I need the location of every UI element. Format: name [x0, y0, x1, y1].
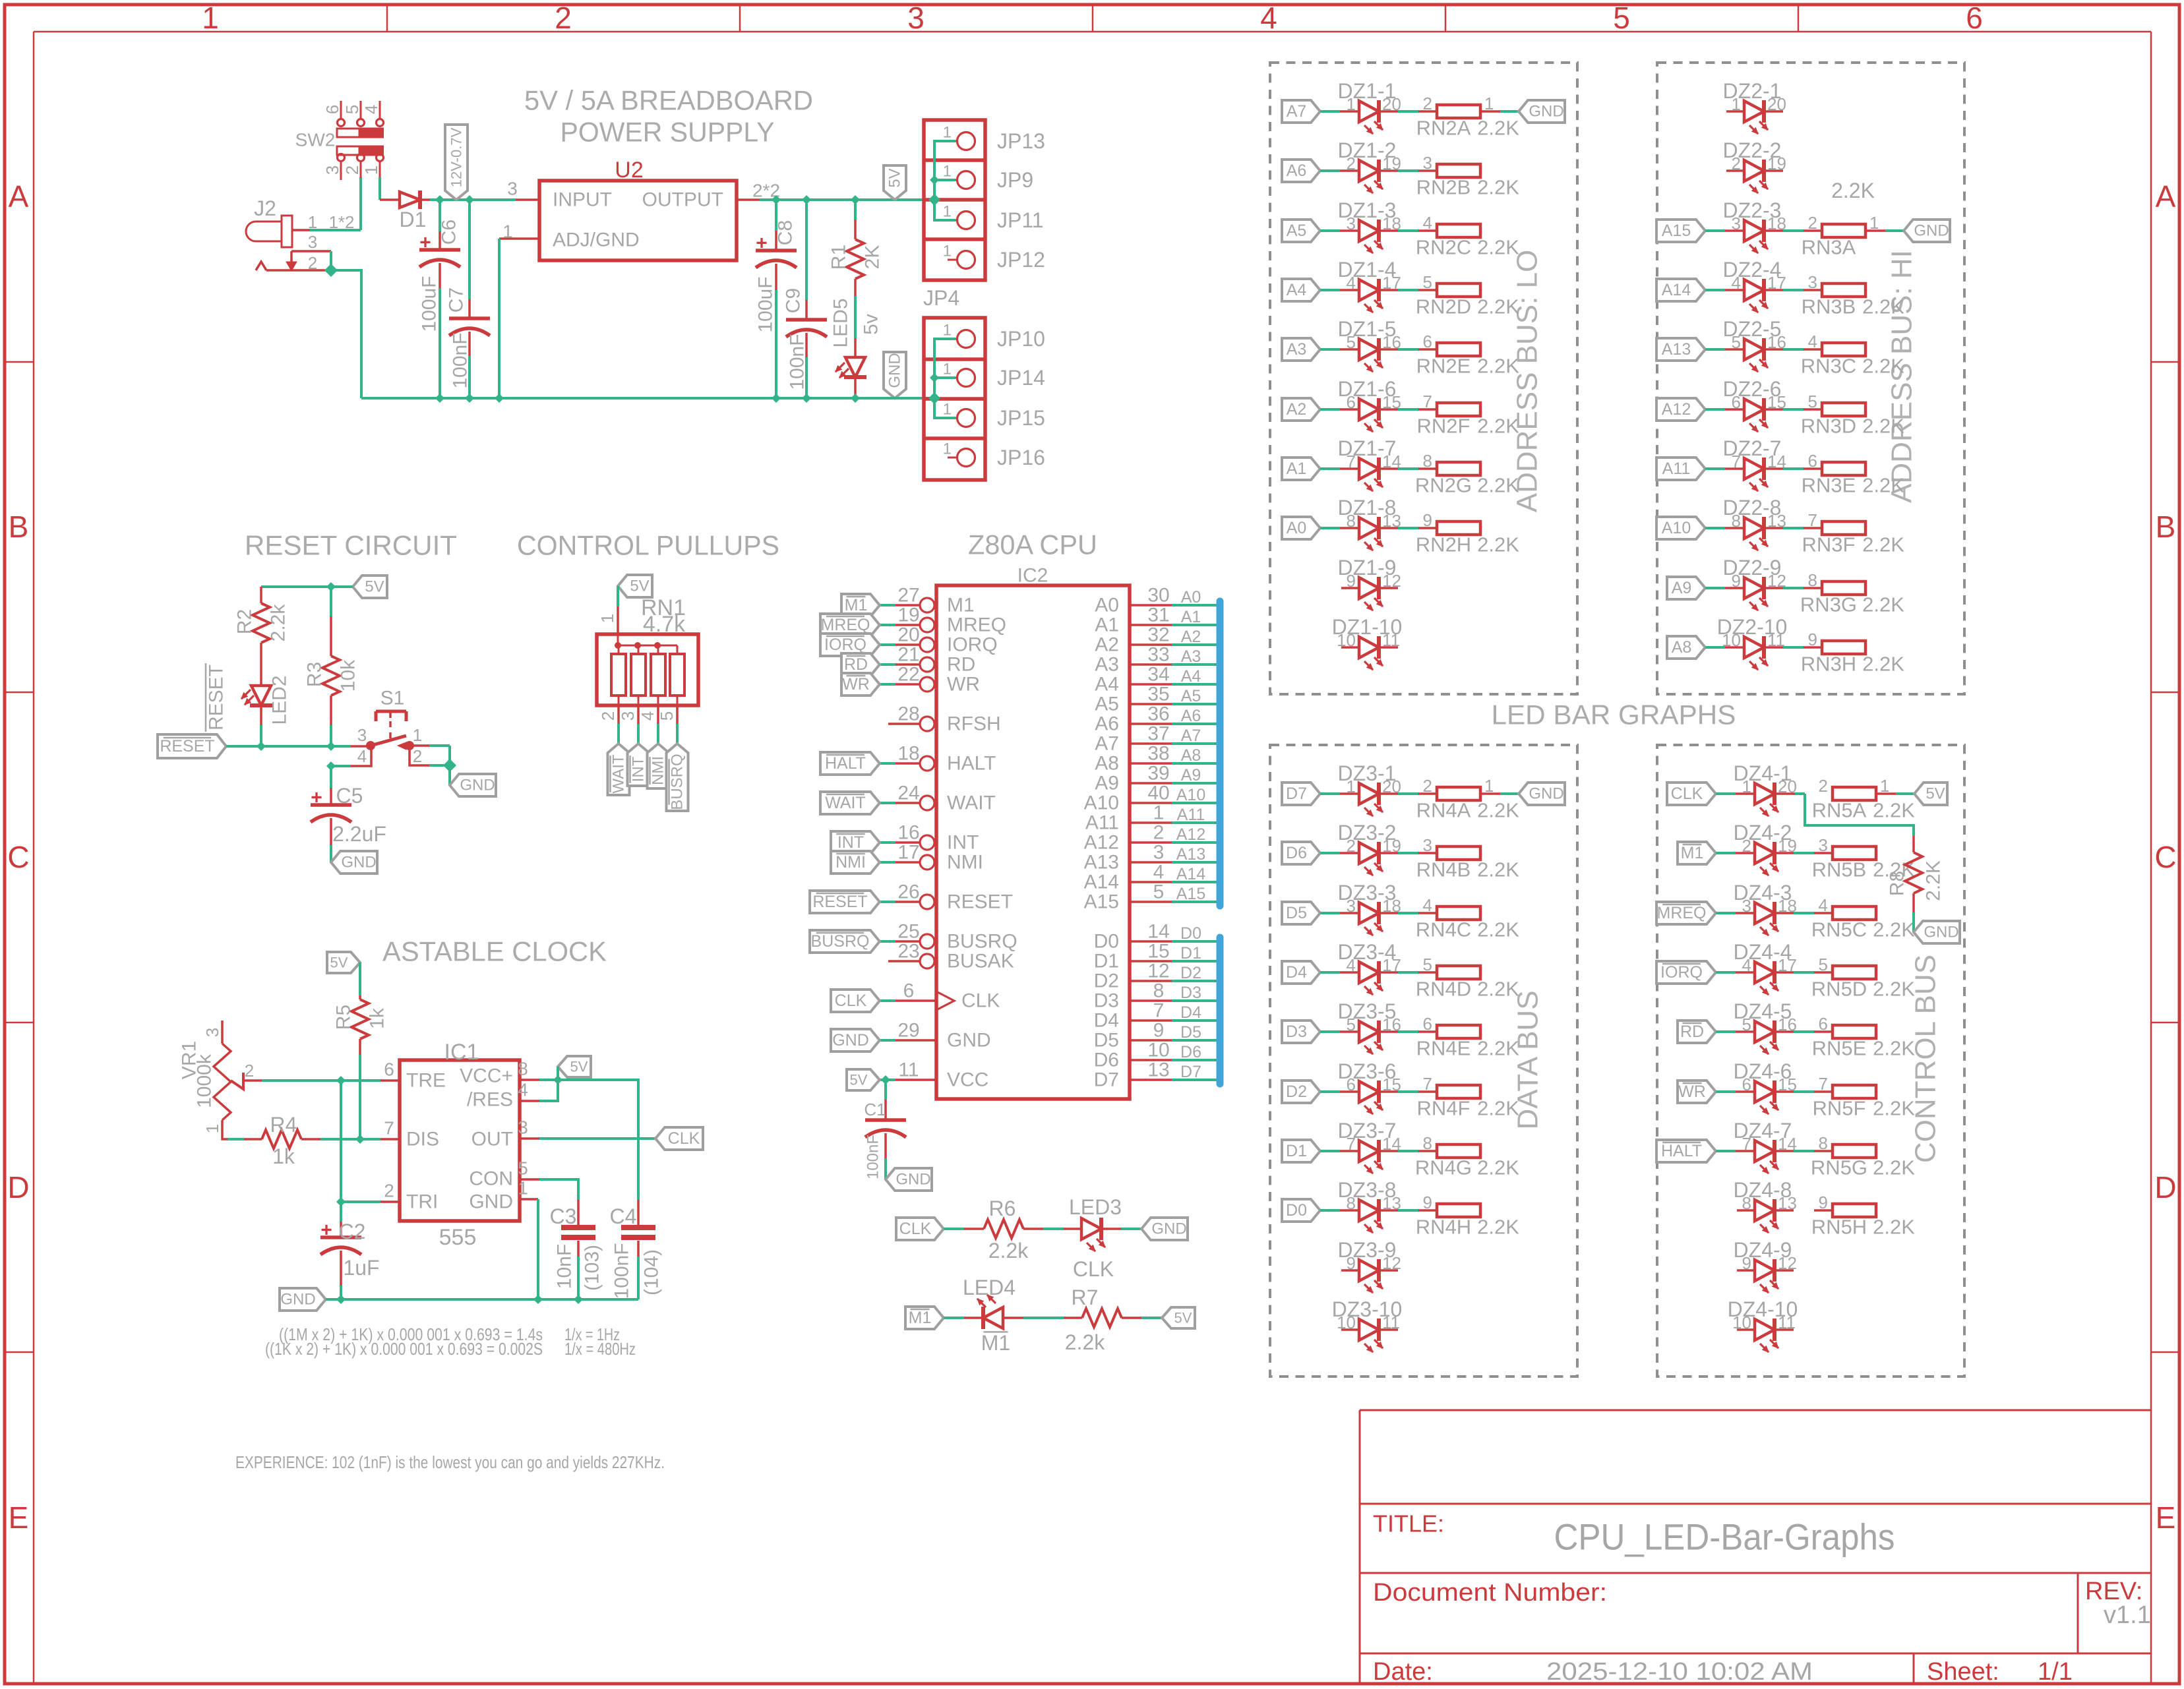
svg-text:(103): (103) [582, 1245, 603, 1291]
IC1 pin8 lead [520, 1079, 539, 1081]
svg-text:GND: GND [280, 1291, 315, 1309]
svg-text:2: 2 [1423, 94, 1432, 113]
resistor R1 2K [854, 200, 857, 220]
svg-text:D1: D1 [1180, 944, 1201, 963]
capacitor C2 1uF [340, 1202, 342, 1222]
svg-text:WAIT: WAIT [610, 754, 628, 793]
svg-text:CLK: CLK [1671, 785, 1703, 803]
svg-text:5V: 5V [850, 1072, 868, 1088]
wire DZ4-3 to RN5C [1774, 912, 1794, 914]
svg-text:4: 4 [1260, 1, 1277, 35]
svg-text:8: 8 [1153, 980, 1165, 1002]
node junction S1 ground [444, 759, 456, 771]
supply flag GND [1904, 220, 1950, 242]
svg-text:HALT: HALT [1661, 1142, 1702, 1160]
svg-text:1: 1 [1153, 802, 1165, 824]
svg-text:BUSRQ: BUSRQ [669, 754, 686, 810]
svg-text:100uF: 100uF [419, 276, 440, 332]
supply flag GND astable [280, 1288, 326, 1311]
net flag RD [1678, 1021, 1716, 1043]
svg-text:12: 12 [1147, 961, 1169, 982]
svg-text:D6: D6 [1094, 1050, 1119, 1071]
wire S1 to GND [448, 765, 451, 785]
resistor R8 2.2K [1912, 836, 1915, 852]
svg-text:A5: A5 [1181, 687, 1201, 705]
wire DZ1-2 to RN2B [1379, 169, 1398, 172]
svg-text:RN3G: RN3G [1800, 593, 1857, 616]
svg-text:4: 4 [1819, 895, 1828, 915]
svg-text:M1: M1 [845, 596, 868, 614]
svg-text:DIS: DIS [406, 1129, 439, 1150]
wire TRE-TRI vertical [340, 1081, 342, 1202]
net flag A4 [1282, 279, 1320, 301]
svg-text:SW2: SW2 [295, 130, 336, 150]
svg-text:+: + [320, 1220, 332, 1241]
svg-text:39: 39 [1147, 763, 1169, 785]
node junction IC1 gnd [534, 1295, 542, 1303]
svg-text:D3: D3 [1094, 990, 1119, 1012]
svg-text:OUT: OUT [471, 1129, 513, 1150]
svg-text:RN5A: RN5A [1812, 799, 1867, 822]
svg-text:RN5F: RN5F [1813, 1097, 1866, 1120]
svg-text:R8: R8 [1887, 871, 1908, 896]
net flag A2 [1282, 398, 1320, 421]
resistor RN2D 2.2K [1437, 283, 1480, 297]
wire A0 to DZ1-8 [1320, 527, 1340, 529]
IC1 pin5 CON lead [520, 1178, 539, 1181]
svg-text:2.2K: 2.2K [1862, 653, 1904, 676]
svg-text:RFSH: RFSH [947, 713, 1001, 735]
svg-text:6: 6 [1819, 1014, 1828, 1034]
wire DZ1-3 to RN2C [1379, 229, 1398, 232]
svg-text:GND: GND [886, 353, 904, 388]
svg-text:MREQ: MREQ [1657, 904, 1707, 922]
net flag INT [628, 744, 650, 786]
node junction TRE/TRI [337, 1077, 345, 1084]
svg-text:5: 5 [1613, 1, 1630, 35]
dashed group box DZ4 bank [1657, 745, 1964, 1377]
net flag D3 [1282, 1021, 1320, 1043]
supply flag 5V [1914, 783, 1947, 805]
node junction R3 bottom [327, 742, 335, 750]
J2 pin 2 lead with sleeve chevron [256, 262, 266, 270]
svg-text:A: A [9, 179, 29, 214]
svg-text:D4: D4 [1094, 1010, 1119, 1032]
svg-text:WR: WR [947, 674, 980, 696]
net flag D0 [1282, 1199, 1320, 1222]
svg-text:5V: 5V [886, 168, 904, 187]
svg-text:D0: D0 [1286, 1201, 1307, 1220]
svg-text:2.2K: 2.2K [1477, 295, 1519, 318]
resistor R7 2.2k [1064, 1317, 1082, 1319]
svg-text:A4: A4 [1287, 281, 1307, 299]
svg-text:17: 17 [897, 842, 919, 864]
svg-text:MREQ: MREQ [947, 614, 1006, 636]
net flag RESET [158, 734, 226, 758]
svg-text:40: 40 [1147, 783, 1169, 804]
svg-text:6: 6 [1423, 1014, 1432, 1034]
svg-text:RN3F: RN3F [1802, 533, 1856, 556]
svg-text:31: 31 [1147, 605, 1169, 626]
svg-text:GND: GND [1151, 1220, 1186, 1238]
resistor RN4H 2.2K [1437, 1204, 1480, 1217]
node junction JP11 rail [929, 194, 940, 205]
wire D7 to DZ3-1 [1320, 792, 1340, 795]
svg-text:C6: C6 [439, 220, 460, 245]
supply flag GND S1 [450, 774, 496, 796]
svg-text:C3: C3 [550, 1204, 577, 1228]
svg-text:GND: GND [1914, 222, 1949, 240]
net flag A7 [1282, 100, 1320, 123]
wire HALT to DZ4-7 [1716, 1150, 1736, 1152]
svg-text:24: 24 [897, 783, 919, 804]
supply flag 5V IC1 [558, 1056, 591, 1077]
svg-text:D3: D3 [1180, 984, 1201, 1002]
svg-text:WAIT: WAIT [825, 794, 866, 812]
net flag A5 [1282, 220, 1320, 242]
svg-text:RN4D: RN4D [1416, 978, 1471, 1001]
S1 pin 1 contact [398, 742, 406, 750]
net flag A3 [1282, 338, 1320, 361]
wire LED4 to R7 [1023, 1317, 1064, 1319]
svg-text:GND: GND [1529, 785, 1563, 803]
svg-text:D5: D5 [1286, 904, 1307, 922]
svg-text:1/x = 480Hz: 1/x = 480Hz [564, 1339, 636, 1359]
svg-text:M1: M1 [947, 595, 975, 616]
svg-text:RN4A: RN4A [1416, 799, 1471, 822]
svg-text:2.2K: 2.2K [1873, 799, 1915, 822]
node junction C9 top [803, 196, 810, 204]
svg-text:D2: D2 [1094, 970, 1119, 992]
svg-text:EXPERIENCE: 102 (1nF) is the l: EXPERIENCE: 102 (1nF) is the lowest you … [235, 1452, 665, 1472]
wire DZ2-8 to RN3F [1764, 527, 1783, 529]
svg-text:2: 2 [1423, 776, 1432, 796]
net flag CLK out [655, 1127, 703, 1150]
resistor RN3F 2.2K [1822, 521, 1866, 535]
svg-text:1: 1 [943, 124, 952, 142]
bus address bus bar [1217, 601, 1224, 906]
svg-text:A8: A8 [1181, 746, 1201, 765]
svg-text:3: 3 [322, 165, 342, 175]
wire D3 to DZ3-5 [1320, 1030, 1340, 1033]
capacitor C8 100uF [775, 200, 777, 231]
svg-text:TRE: TRE [406, 1070, 446, 1092]
svg-text:2.2K: 2.2K [1477, 176, 1519, 199]
svg-text:IORQ: IORQ [947, 634, 998, 656]
svg-text:C7: C7 [446, 287, 468, 312]
capacitor C3 10nF [577, 1200, 580, 1228]
svg-text:2: 2 [384, 1181, 394, 1201]
resistor RN3C 2.2K [1822, 343, 1866, 356]
wire stub DZ4-10 anode [1737, 1328, 1755, 1331]
IC IC1 555 timer [400, 1060, 520, 1221]
svg-text:BUSAK: BUSAK [947, 951, 1014, 972]
node junction JP9 [930, 176, 938, 184]
svg-text:2.2K: 2.2K [1862, 355, 1904, 378]
svg-text:2.2k: 2.2k [268, 604, 289, 642]
svg-text:Date:: Date: [1373, 1658, 1433, 1686]
svg-text:5: 5 [342, 105, 362, 114]
wire stub DZ4-8 anode [1737, 1209, 1755, 1212]
wire DZ2-6 to RN3D [1764, 408, 1783, 411]
net flag GND [880, 1039, 895, 1042]
wire R7 to 5V [1141, 1317, 1162, 1319]
supply flag GND R8 [1914, 921, 1960, 943]
svg-text:3: 3 [308, 232, 317, 252]
svg-text:5: 5 [1153, 881, 1165, 903]
svg-text:D0: D0 [1094, 931, 1119, 953]
svg-text:555: 555 [439, 1225, 477, 1250]
svg-text:+: + [756, 233, 768, 254]
svg-text:A10: A10 [1176, 786, 1205, 804]
svg-text:10nF: 10nF [554, 1244, 576, 1289]
svg-text:5V: 5V [1926, 785, 1945, 803]
node junction JP14 [930, 374, 938, 382]
wire 5V to R2/R3 [261, 585, 353, 588]
svg-text:1: 1 [943, 401, 952, 419]
wire DZ4-5 to RN5E [1774, 1030, 1794, 1033]
svg-text:3: 3 [357, 725, 367, 745]
svg-text:2.2K: 2.2K [1831, 179, 1875, 202]
svg-text:CPU_LED-Bar-Graphs: CPU_LED-Bar-Graphs [1554, 1516, 1895, 1558]
S1 pin 2 lead [409, 749, 429, 765]
svg-text:2: 2 [1819, 776, 1828, 796]
svg-text:RN2F: RN2F [1417, 415, 1471, 438]
svg-text:OUTPUT: OUTPUT [642, 189, 723, 211]
svg-text:D: D [2154, 1170, 2176, 1204]
svg-text:6: 6 [1966, 1, 1983, 35]
S1 pin 4 lead [331, 765, 351, 767]
diode D1 [380, 198, 400, 201]
svg-text:1: 1 [597, 614, 617, 623]
svg-text:4: 4 [1423, 895, 1432, 915]
svg-text:IORQ: IORQ [1660, 963, 1703, 982]
net flag HALT [880, 762, 895, 765]
svg-text:3: 3 [1808, 272, 1817, 292]
svg-text:C8: C8 [775, 220, 797, 245]
svg-text:2.2K: 2.2K [1477, 1156, 1519, 1179]
IC1 pin1 GND lead [520, 1198, 538, 1200]
svg-text:C9: C9 [783, 288, 804, 313]
svg-text:D1: D1 [1286, 1142, 1307, 1160]
net flag D1 [1282, 1140, 1320, 1162]
svg-text:WAIT: WAIT [947, 792, 996, 814]
wire DZ3-4 to RN4D [1379, 971, 1398, 974]
svg-text:D4: D4 [1286, 963, 1307, 982]
svg-text:A2: A2 [1287, 400, 1307, 419]
svg-text:M1: M1 [981, 1331, 1010, 1355]
svg-text:A7: A7 [1287, 102, 1307, 121]
regulator U2 [539, 181, 737, 260]
svg-text:M1: M1 [1681, 844, 1704, 862]
wire DZ1-4 to RN2D [1379, 289, 1398, 291]
svg-text:2.2K: 2.2K [1873, 1156, 1915, 1179]
svg-text:A10: A10 [1084, 792, 1119, 814]
wire VCC to C4 [558, 1080, 638, 1200]
svg-text:Document Number:: Document Number: [1373, 1579, 1607, 1607]
node junction ADJ bottom [495, 394, 503, 402]
wire A11 to DZ2-7 [1705, 467, 1725, 470]
net flag RESET [880, 901, 895, 903]
wire stub DZ1-9 cathode [1379, 587, 1398, 589]
supply flag 5V reset [353, 576, 387, 598]
svg-text:C2: C2 [339, 1220, 366, 1243]
svg-text:1: 1 [943, 243, 952, 260]
svg-text:5V: 5V [330, 955, 348, 971]
svg-text:A14: A14 [1176, 865, 1206, 883]
svg-text:2.2K: 2.2K [1477, 533, 1519, 556]
net flag A13 [1656, 338, 1705, 361]
net flag RD [880, 663, 895, 666]
svg-text:2: 2 [413, 746, 422, 766]
JP4 bottom wiring [934, 339, 956, 418]
svg-text:A15: A15 [1662, 222, 1691, 240]
svg-text:2.2K: 2.2K [1923, 860, 1945, 901]
wire DZ3-6 to RN4F [1379, 1090, 1398, 1093]
resistor RN5H 2.2K [1833, 1204, 1876, 1217]
svg-text:D6: D6 [1180, 1043, 1201, 1061]
svg-text:INPUT: INPUT [553, 189, 612, 211]
svg-text:JP14: JP14 [997, 366, 1045, 390]
svg-text:C: C [7, 840, 29, 874]
wire DZ3-3 to RN4C [1379, 912, 1398, 914]
svg-text:JP12: JP12 [997, 248, 1045, 272]
svg-text:10k: 10k [338, 659, 359, 692]
wire RN4A to GND [1480, 792, 1500, 795]
svg-text:18: 18 [897, 743, 919, 765]
wire stub DZ3-10 cathode [1379, 1328, 1398, 1331]
frame inner border [34, 31, 2151, 33]
wire J2 pin1 to SW2 pin2 [310, 229, 361, 231]
IC1 pin6 lead [380, 1079, 400, 1082]
svg-text:RN4E: RN4E [1416, 1037, 1471, 1060]
svg-text:100nF: 100nF [787, 334, 808, 390]
svg-text:IORQ: IORQ [824, 636, 866, 654]
svg-text:A2: A2 [1181, 628, 1201, 646]
svg-text:2.2k: 2.2k [1065, 1330, 1105, 1354]
svg-text:GND: GND [895, 1171, 930, 1189]
net flag A14 [1656, 279, 1705, 301]
svg-text:20: 20 [897, 624, 919, 646]
net flag A11 [1656, 458, 1705, 480]
svg-text:HALT: HALT [947, 753, 996, 775]
resistor R2 2.2k [260, 587, 262, 603]
wire J2 pin3 to pin2 junction [330, 251, 332, 270]
RN1 bottom pin leads [617, 705, 620, 724]
wire M1 to LED4 [944, 1317, 964, 1319]
svg-text:5V: 5V [1174, 1310, 1192, 1326]
svg-text:21: 21 [897, 644, 919, 666]
svg-text:RESET: RESET [812, 893, 867, 911]
svg-text:3: 3 [1423, 153, 1432, 173]
svg-text:A9: A9 [1181, 766, 1201, 785]
svg-text:11: 11 [898, 1059, 919, 1081]
svg-text:6: 6 [1808, 451, 1817, 471]
connector J2 [246, 222, 282, 241]
net flag A8 [1667, 636, 1705, 659]
wire astable ground rail [326, 1298, 638, 1301]
net flag A0 [1282, 517, 1320, 539]
wire A13 to DZ2-5 [1705, 348, 1725, 351]
svg-text:RESET CIRCUIT: RESET CIRCUIT [245, 530, 457, 561]
wire A8 to DZ2-10 [1705, 646, 1725, 649]
svg-text:Z80A CPU: Z80A CPU [968, 529, 1097, 560]
net flag IORQ [1656, 961, 1716, 984]
svg-text:LED BAR GRAPHS: LED BAR GRAPHS [1492, 699, 1736, 730]
svg-text:D7: D7 [1286, 785, 1307, 803]
connector JP4 top header [924, 120, 985, 280]
wire RN5A to 5V [1876, 792, 1896, 795]
svg-text:2025-12-10 10:02 AM: 2025-12-10 10:02 AM [1546, 1658, 1813, 1686]
svg-text:A1: A1 [1181, 608, 1201, 626]
net flag MREQ [1656, 902, 1716, 924]
capacitor C5 2.2uF [330, 766, 332, 788]
node junction C5 top [327, 762, 335, 770]
svg-text:RESET: RESET [947, 891, 1013, 913]
wire stub DZ3-9 anode [1341, 1269, 1359, 1272]
svg-text:5v: 5v [861, 314, 882, 335]
svg-text:100nF: 100nF [611, 1243, 633, 1299]
capacitor C6 100uF [439, 200, 441, 231]
svg-text:A11: A11 [1177, 806, 1205, 824]
resistor RN4G 2.2K [1437, 1144, 1480, 1158]
svg-text:E: E [2156, 1500, 2176, 1535]
svg-text:GND: GND [832, 1031, 869, 1050]
net flag IORQ [880, 643, 895, 646]
node junction C8 bottom [772, 394, 780, 402]
svg-text:RN4G: RN4G [1415, 1156, 1472, 1179]
wire DZ3-7 to RN4G [1379, 1150, 1398, 1152]
svg-text:RN5E: RN5E [1812, 1037, 1867, 1060]
wire DZ4-4 to RN5D [1774, 971, 1794, 974]
svg-text:4: 4 [1423, 213, 1432, 233]
svg-text:2.2K: 2.2K [1862, 533, 1904, 556]
JP4 top wiring [934, 141, 956, 220]
svg-text:A1: A1 [1287, 459, 1307, 478]
resistor RN2B 2.2K [1437, 164, 1480, 177]
svg-text:8: 8 [518, 1059, 528, 1079]
U2 pin 1 ADJ lead [499, 237, 539, 240]
wire R6 to LED3 [1043, 1228, 1064, 1230]
svg-text:2.2K: 2.2K [1477, 236, 1519, 259]
svg-text:A4: A4 [1181, 667, 1201, 686]
svg-text:5V: 5V [630, 578, 649, 595]
wire DZ1-6 to RN2F [1379, 408, 1398, 411]
svg-text:1: 1 [943, 440, 952, 458]
node junction C6 top [436, 196, 444, 204]
node junction R1 top [851, 196, 859, 204]
svg-text:D1: D1 [400, 208, 427, 231]
J2 switch arm arrow [290, 251, 293, 262]
svg-text:A12: A12 [1662, 400, 1691, 419]
svg-text:2: 2 [598, 711, 618, 721]
svg-text:2K: 2K [862, 245, 884, 270]
svg-text:2.2k: 2.2k [988, 1239, 1029, 1262]
svg-text:2: 2 [245, 1061, 254, 1081]
svg-text:2: 2 [342, 165, 362, 175]
wire stub DZ2-2 cathode [1764, 169, 1783, 172]
svg-text:1000k: 1000k [194, 1053, 216, 1108]
svg-text:A3: A3 [1095, 654, 1119, 676]
svg-text:CONTROL PULLUPS: CONTROL PULLUPS [517, 530, 779, 561]
VR1 pin1 to R4 [222, 1120, 228, 1139]
svg-text:M1: M1 [909, 1309, 932, 1327]
wire LED2 to reset net [260, 725, 262, 746]
svg-text:A0: A0 [1181, 588, 1201, 607]
svg-text:((1K x 2) + 1K) x 0.000 001 x: ((1K x 2) + 1K) x 0.000 001 x 0.693 = 0.… [265, 1339, 543, 1359]
svg-text:(104): (104) [641, 1249, 663, 1295]
svg-text:2.2K: 2.2K [1477, 858, 1519, 881]
